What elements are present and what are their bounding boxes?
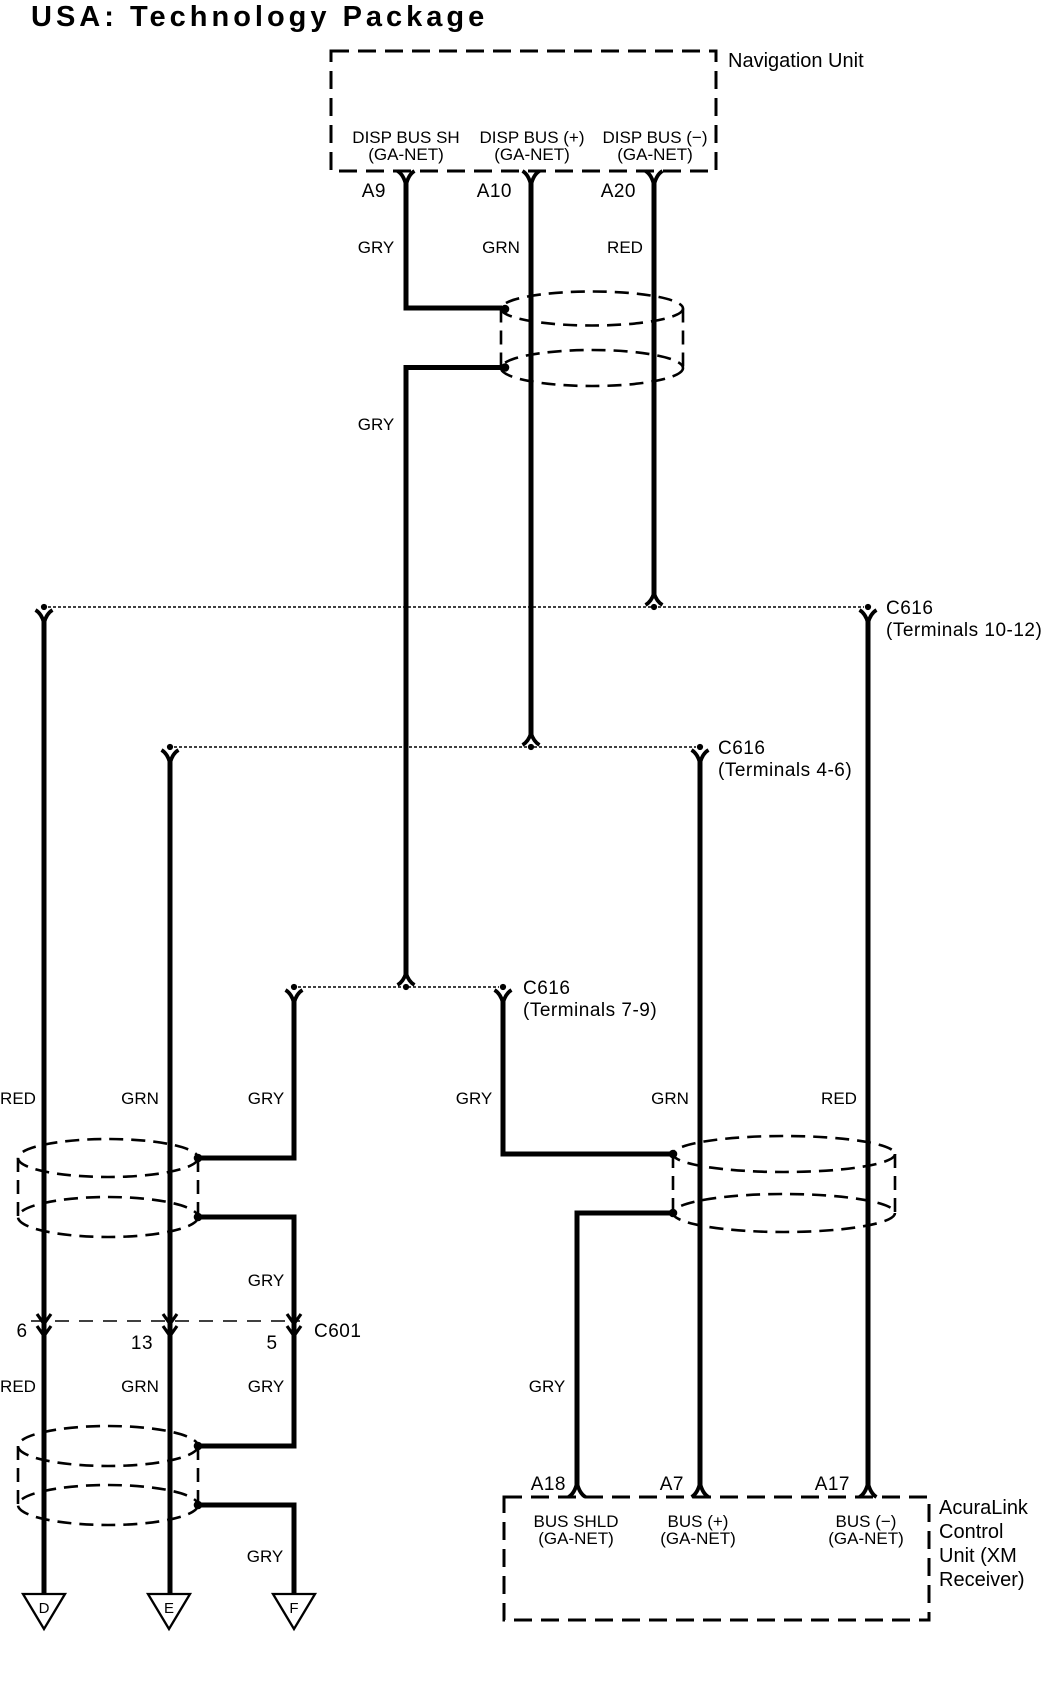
svg-text:RED: RED (607, 238, 643, 257)
fork below C616 (10-12) right (860, 610, 877, 623)
node dot right shield top (669, 1150, 678, 1159)
ground symbol F (273, 1594, 315, 1629)
svg-text:A7: A7 (660, 1474, 684, 1495)
node dot left end C616 (10-12) (41, 604, 47, 610)
acuralink control unit box (504, 1497, 929, 1620)
pin A20 fork (646, 171, 663, 185)
connector C616 (Terminals 10-12) line (48, 606, 864, 608)
svg-text:C616: C616 (886, 598, 933, 619)
svg-text:GRY: GRY (248, 1089, 285, 1108)
node shield bottom dot (501, 363, 510, 372)
svg-text:C616: C616 (718, 738, 765, 759)
wire GRY shield drain down to C616 (7-9) (406, 368, 503, 977)
svg-text:GRY: GRY (248, 1271, 285, 1290)
svg-text:GRY: GRY (358, 415, 395, 434)
shield symbol top (twisted pair) (501, 292, 683, 387)
fork below C616 (7-9) left (286, 990, 303, 1003)
wire GRN left branch down to shield and E (168, 759, 173, 1594)
fork at GRY wire end into C616 (7-9) (398, 973, 415, 985)
svg-text:D: D (39, 1600, 50, 1617)
svg-text:C601: C601 (314, 1321, 361, 1342)
svg-text:(Terminals 10-12): (Terminals 10-12) (886, 620, 1042, 641)
svg-text:Unit (XM: Unit (XM (939, 1545, 1017, 1567)
svg-text:GRN: GRN (121, 1377, 159, 1396)
wire GRY from right shield down to A18 (577, 1213, 673, 1487)
svg-text:A17: A17 (815, 1474, 850, 1495)
wire GRN from A10 to C616 (529, 182, 534, 737)
pin A10 fork (523, 171, 540, 185)
navigation unit box (331, 51, 716, 171)
pin A9 fork (398, 171, 415, 185)
svg-text:Receiver): Receiver) (939, 1569, 1025, 1591)
svg-text:GRN: GRN (482, 238, 520, 257)
wire RED right branch down to A17 (866, 619, 871, 1487)
svg-text:AcuraLink: AcuraLink (939, 1497, 1029, 1519)
svg-text:Control: Control (939, 1521, 1003, 1543)
node dot right end C616 (7-9) (500, 984, 506, 990)
node dot right end C616 (10-12) (865, 604, 871, 610)
wire GRY right branch to right shield (503, 999, 671, 1154)
svg-text:(GA-NET): (GA-NET) (368, 145, 444, 164)
svg-text:A10: A10 (477, 181, 512, 202)
node dot bottom-left shield top (194, 1442, 203, 1451)
wire GRY from A9 to shield (406, 182, 502, 308)
svg-text:A18: A18 (531, 1474, 566, 1495)
fork GRN wire end at C616 (4-6) (523, 733, 540, 745)
svg-text:RED: RED (0, 1089, 36, 1108)
svg-text:C616: C616 (523, 978, 570, 999)
svg-text:F: F (289, 1600, 298, 1617)
svg-text:USA: Technology Package: USA: Technology Package (31, 1, 488, 33)
shield symbol bottom-left (18, 1426, 198, 1525)
svg-text:(GA-NET): (GA-NET) (617, 145, 693, 164)
pin A18 fork (569, 1483, 586, 1497)
node dot right end C616 (4-6) (697, 744, 703, 750)
svg-text:GRN: GRN (651, 1089, 689, 1108)
wire RED from A20 to C616 (652, 182, 657, 597)
fork below C616 (4-6) right (692, 750, 709, 763)
node dot GRN at C616 (4-6) (528, 744, 534, 750)
fork RED wire end at C616 (10-12) (646, 593, 663, 605)
node dot mid-left shield bottom (194, 1213, 203, 1222)
shield symbol mid-left (18, 1139, 198, 1237)
svg-text:A20: A20 (601, 181, 636, 202)
svg-text:(GA-NET): (GA-NET) (538, 1529, 614, 1548)
wire RED left branch down to shield and D (42, 619, 47, 1594)
ground symbol D (23, 1594, 65, 1629)
fork below C616 (4-6) left (162, 750, 179, 763)
fork below C616 (10-12) left (36, 610, 53, 623)
svg-text:GRY: GRY (358, 238, 395, 257)
node dot left end C616 (4-6) (167, 744, 173, 750)
svg-text:RED: RED (821, 1089, 857, 1108)
shield symbol right (673, 1136, 895, 1232)
connector C601 line (31, 1320, 300, 1322)
connector C601 chevrons GRY wire (287, 1314, 301, 1336)
svg-text:GRY: GRY (248, 1377, 285, 1396)
wire GRY left branch to left shield (200, 999, 294, 1158)
svg-text:E: E (164, 1600, 174, 1617)
svg-text:GRY: GRY (456, 1089, 493, 1108)
pin A17 fork (860, 1483, 877, 1497)
connector C616 (Terminals 7-9) line (298, 986, 499, 988)
svg-text:Navigation Unit: Navigation Unit (728, 50, 864, 72)
ground symbol E (148, 1594, 190, 1629)
connector C616 (Terminals 4-6) line (174, 746, 696, 748)
node dot right shield bottom (669, 1209, 678, 1218)
svg-text:A9: A9 (362, 181, 386, 202)
svg-text:5: 5 (266, 1333, 277, 1354)
svg-text:(Terminals 4-6): (Terminals 4-6) (718, 760, 852, 781)
node dot RED at C616 (10-12) (651, 604, 657, 610)
svg-text:GRY: GRY (247, 1547, 284, 1566)
svg-text:RED: RED (0, 1377, 36, 1396)
svg-text:GRN: GRN (121, 1089, 159, 1108)
wire GRY from mid-left shield down through C601 (198, 1217, 294, 1446)
svg-text:(GA-NET): (GA-NET) (660, 1529, 736, 1548)
svg-text:13: 13 (131, 1333, 153, 1354)
connector C601 chevrons GRN wire (163, 1314, 177, 1336)
svg-text:GRY: GRY (529, 1377, 566, 1396)
node shield top dot (501, 305, 510, 314)
connector C601 chevrons RED wire (37, 1314, 51, 1336)
node dot left end C616 (7-9) (291, 984, 297, 990)
pin A7 fork (692, 1483, 709, 1497)
wire GRN right branch down to A7 (698, 759, 703, 1487)
wire GRY from bottom-left shield to ground F (198, 1505, 294, 1594)
svg-text:6: 6 (16, 1321, 27, 1342)
svg-text:(GA-NET): (GA-NET) (494, 145, 570, 164)
svg-text:(Terminals 7-9): (Terminals 7-9) (523, 1000, 657, 1021)
node dot mid-left shield top (194, 1154, 203, 1163)
node dot bottom-left shield bottom (194, 1501, 203, 1510)
fork below C616 (7-9) right (495, 990, 512, 1003)
node dot GRY at C616 (7-9) (403, 984, 409, 990)
svg-text:(GA-NET): (GA-NET) (828, 1529, 904, 1548)
